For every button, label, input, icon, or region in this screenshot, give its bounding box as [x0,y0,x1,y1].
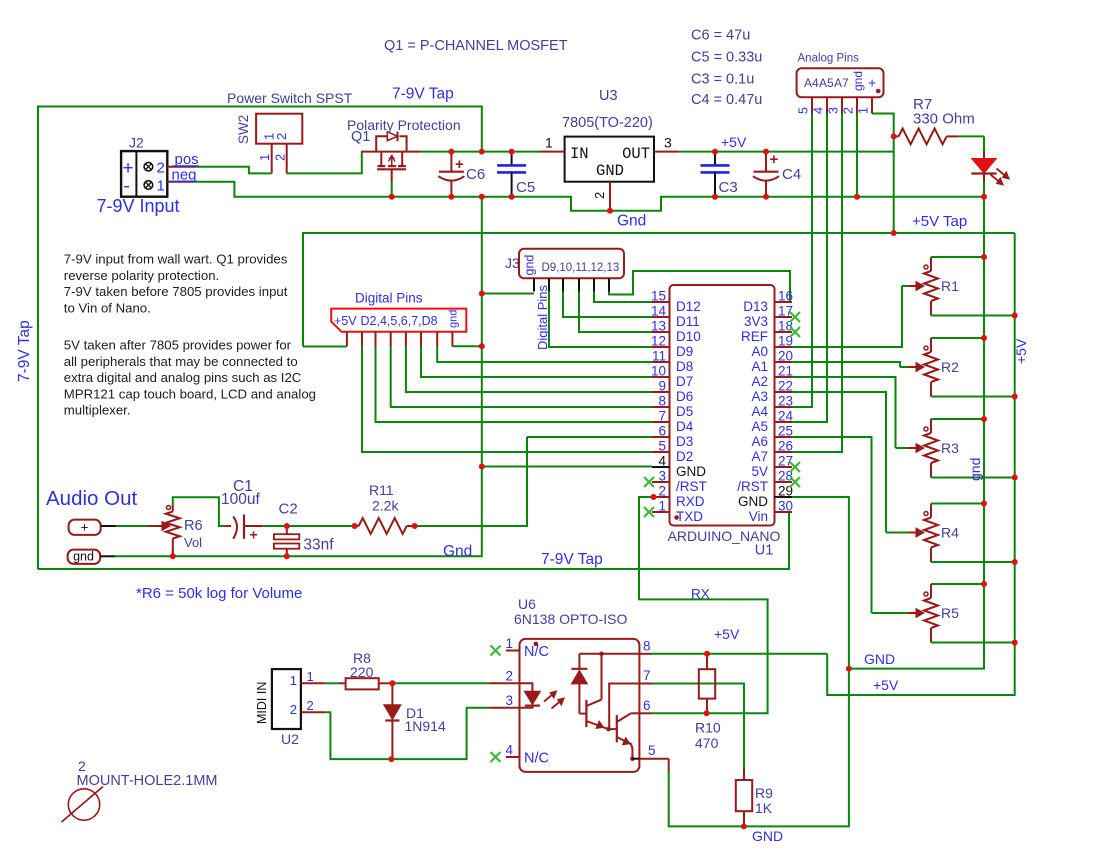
svg-text:Vin: Vin [749,509,768,524]
svg-text:A4: A4 [751,404,768,419]
junction R3 top gnd rail [981,416,987,422]
svg-text:multiplexer.: multiplexer. [64,403,131,418]
svg-text:8: 8 [658,394,666,409]
wire DP to D4 [376,347,653,423]
junction R10 top +5V [704,651,710,657]
svg-text:D10: D10 [676,329,701,344]
svg-text:A5: A5 [751,419,768,434]
junction R9 bottom GND [741,823,747,829]
transistor Q1 P-MOSFET polarity protection [347,117,461,197]
svg-text:RXD: RXD [676,494,705,509]
junction C5 bottom GND [509,194,515,200]
svg-text:13: 13 [651,319,666,334]
svg-text:U2: U2 [281,731,299,747]
svg-text:10: 10 [651,364,666,379]
svg-text:A1: A1 [751,359,768,374]
svg-text:N/C: N/C [524,644,549,660]
svg-text:3: 3 [506,693,514,708]
junction R8-D1 node [389,680,395,686]
potentiometer R2 [900,338,1015,397]
junction J3 gnd [479,291,485,297]
svg-text:4: 4 [658,454,666,469]
resistor R7 [894,96,984,144]
svg-text:C5: C5 [516,179,535,196]
svg-text:3: 3 [664,135,672,151]
junction +5V Tap rail [891,230,897,236]
wire audio gnd rail [115,197,482,557]
svg-text:1: 1 [545,135,553,151]
wire opto pin7 to R9 [652,684,744,770]
svg-text:2: 2 [274,133,289,140]
svg-text:26: 26 [778,439,793,454]
wire nano pin30 Vin to 7-9V Tap [38,512,789,569]
svg-text:2: 2 [842,107,856,114]
svg-text:7-9V Tap: 7-9V Tap [392,86,454,103]
svg-text:17: 17 [778,304,793,319]
svg-text:1: 1 [658,499,666,514]
junction nano GND pin4 [479,464,485,470]
no-connect X nano REF pin18 [790,327,800,337]
svg-text:16: 16 [778,289,793,304]
svg-text:Digital Pins: Digital Pins [535,284,550,350]
svg-text:C6: C6 [466,166,485,183]
svg-text:7: 7 [643,668,651,683]
svg-text:REF: REF [741,329,768,344]
svg-text:6N138 OPTO-ISO: 6N138 OPTO-ISO [514,611,627,627]
svg-text:1: 1 [257,154,272,161]
mount hole [62,758,218,822]
wire J2 pos to SW2 pin1 [196,167,272,174]
svg-text:3V3: 3V3 [744,314,768,329]
junction R11 left [352,523,358,529]
switch SW2 [236,114,302,174]
svg-text:C6 = 47u: C6 = 47u [691,28,750,44]
svg-text:5: 5 [797,107,811,114]
svg-text:1: 1 [290,673,297,688]
svg-text:25: 25 [778,424,793,439]
svg-text:R1: R1 [941,278,959,294]
svg-text:9: 9 [658,379,666,394]
svg-text:7805(TO-220): 7805(TO-220) [562,115,653,131]
svg-text:1K: 1K [755,800,773,816]
connector Digital Pins (red) [331,291,466,347]
svg-text:R6: R6 [184,518,203,534]
wire A2 to R3 wiper [792,377,896,448]
svg-text:+5V Tap: +5V Tap [912,213,967,230]
svg-text:R11: R11 [369,482,394,498]
resistor R10 [695,654,721,751]
svg-text:D2,4,5,6,7,D8: D2,4,5,6,7,D8 [361,314,438,328]
junction 7805 GND pin [607,208,613,214]
svg-text:7: 7 [658,409,666,424]
svg-text:+: + [868,75,876,91]
svg-text:2: 2 [157,160,165,177]
svg-text:Audio Out: Audio Out [46,487,137,510]
svg-text:5V: 5V [751,464,768,479]
svg-text:5: 5 [648,743,656,758]
capacitor C1 [221,478,263,543]
svg-text:8: 8 [643,639,651,654]
junction C6 bottom GND [448,194,454,200]
svg-text:A7: A7 [751,449,768,464]
svg-text:2: 2 [78,758,86,774]
svg-text:3: 3 [827,107,841,114]
svg-text:D6: D6 [676,389,693,404]
svg-text:/RST: /RST [737,479,768,494]
svg-text:14: 14 [651,304,667,319]
capacitor C3 [701,152,738,197]
wire C1 to C2 to R11 [263,525,354,527]
wire gnd right rail [849,197,984,669]
wire MIDI pin1 to R8 [325,682,339,684]
wire +5V Tap rail [303,233,1015,347]
junction R2 bottom +5V rail [1012,394,1018,400]
junction analog header gnd [854,194,860,200]
svg-text:+: + [81,520,89,535]
svg-text:7-9V taken before 7805 provide: 7-9V taken before 7805 provides input [64,284,288,299]
svg-text:D3: D3 [676,434,693,449]
svg-text:100uf: 100uf [221,491,260,508]
svg-text:Power Switch SPST: Power Switch SPST [227,90,353,106]
svg-text:330 Ohm: 330 Ohm [913,111,975,128]
wire D3 row [527,436,652,438]
wire A7 column [792,114,842,453]
junction C6 top 7-9V node [448,149,454,155]
wire MIDI pin2 to D1 cathode [325,708,490,759]
svg-text:D8: D8 [676,359,693,374]
junction R11 right [412,523,418,529]
svg-text:gnd: gnd [73,550,94,564]
junction GND vertical top [479,194,485,200]
junction C3 top +5V [712,149,718,155]
svg-text:470: 470 [695,735,719,751]
wire opto pin2 from R8 [392,682,490,684]
capacitor C4 [753,151,801,197]
wire J3 to D12 [594,291,652,302]
wire A0 to R1 wiper [792,286,902,347]
svg-text:C2: C2 [279,501,298,518]
IC U6 6N138 opto-isolator [490,596,669,772]
svg-text:7-9V Tap: 7-9V Tap [16,320,33,382]
resistor R9 [736,769,773,826]
svg-text:D5: D5 [676,404,693,419]
potentiometer R3 [896,419,1015,478]
capacitor C2 [274,501,334,557]
capacitor C5 [497,152,535,197]
svg-text:+5V: +5V [1013,338,1029,364]
svg-text:+: + [455,156,464,173]
junction R1 bottom +5V rail [1012,313,1018,319]
svg-text:D9: D9 [676,344,693,359]
svg-text:2: 2 [273,154,288,161]
svg-text:15: 15 [651,289,666,304]
svg-text:27: 27 [778,454,793,469]
svg-text:D7: D7 [676,374,693,389]
svg-text:2.2k: 2.2k [372,498,399,514]
potentiometer R5 [872,584,1015,643]
svg-text:GND: GND [676,464,706,479]
svg-text:R3: R3 [941,440,959,456]
junction R2 top gnd rail [981,335,987,341]
note text block [64,252,316,418]
wire DP to D8 [437,347,652,363]
connector J3 digital pins header [505,249,624,350]
svg-text:C5 = 0.33u: C5 = 0.33u [691,50,762,66]
junction RXD pin [651,494,657,500]
resistor R8 [339,650,392,689]
svg-text:R10: R10 [695,720,721,736]
svg-text:Polarity Protection: Polarity Protection [347,117,461,133]
junction R7 left +5V [891,133,897,139]
junction R4 top gnd rail [981,501,987,507]
svg-text:N/C: N/C [524,751,549,767]
wire SW2 pin2 to Q1 [287,152,363,174]
svg-text:21: 21 [778,364,793,379]
svg-text:+: + [770,151,779,168]
svg-text:gnd: gnd [448,310,460,328]
svg-text:reverse polarity protection.: reverse polarity protection. [64,268,219,283]
svg-text:R2: R2 [941,359,959,375]
svg-text:2: 2 [290,702,297,717]
no-connect X nano /RST pin28 [790,477,800,487]
connector J2 7-9V input [97,135,200,217]
svg-text:22: 22 [778,379,793,394]
junction GND rail corner [846,666,852,672]
junction C3 bottom GND [712,194,718,200]
wire J3 to D9 [549,291,652,347]
svg-text:5V taken after 7805 provides p: 5V taken after 7805 provides power for [64,338,292,353]
svg-text:GND: GND [738,494,768,509]
svg-text:3: 3 [658,469,666,484]
svg-text:gnd: gnd [523,255,537,276]
wire digital pins gnd [452,345,481,347]
svg-text:D2: D2 [676,449,693,464]
svg-text:6: 6 [658,424,666,439]
svg-text:GND: GND [864,651,895,667]
junction Q1 gate GND [389,194,395,200]
svg-text:+5V: +5V [714,626,740,642]
svg-text:1: 1 [857,107,871,114]
junction digital pins gnd [479,343,485,349]
svg-text:C4 = 0.47u: C4 = 0.47u [691,92,762,108]
no-connect X nano 3V3 pin17 [790,312,800,322]
wire DP to D2 [362,347,652,453]
svg-text:U3: U3 [599,88,618,104]
potentiometer R1 [902,257,1015,316]
svg-text:+: + [250,527,258,543]
svg-text:1: 1 [307,669,314,684]
label cap values list [691,28,762,109]
svg-text:D12: D12 [676,299,701,314]
junction C5 top [509,149,515,155]
capacitor C6 [438,152,485,197]
svg-text:MPR121 cap touch board, LCD a: MPR121 cap touch board, LCD and analog [64,386,316,401]
junction R10 bottom pin6 [704,710,710,716]
svg-text:all peripherals that may be co: all peripherals that may be connected to [64,354,298,369]
junction R5 top gnd rail [981,581,987,587]
svg-text:Gnd: Gnd [617,213,646,230]
svg-text:to Vin of Nano.: to Vin of Nano. [64,300,151,315]
svg-text:U6: U6 [518,596,536,612]
IC U1 Arduino Nano [651,285,794,559]
junction R6 bottom gnd [170,553,176,559]
svg-text:C3 = 0.1u: C3 = 0.1u [691,72,754,88]
svg-text:2: 2 [307,698,314,713]
wire DP to D6 [406,347,652,393]
diode D1 1N914 [384,683,446,759]
svg-text:OUT: OUT [622,145,650,163]
svg-text:1N914: 1N914 [405,718,446,734]
svg-text:D11: D11 [676,314,700,329]
junction C2 bottom gnd [284,553,290,559]
wire opto pin8 +5V [652,653,827,655]
wire 7-9V top border [38,107,482,570]
svg-text:U1: U1 [755,543,774,559]
svg-text:12: 12 [651,334,666,349]
svg-text:A3: A3 [751,389,768,404]
wire analog + pin to +5V vertical [872,114,894,234]
svg-text:4: 4 [812,107,826,114]
connector audio gnd [68,550,115,564]
svg-text:-: - [124,176,130,197]
wire +5V rail from 7805 OUT [679,151,893,153]
wire analog gnd pin [856,114,858,197]
svg-text:*R6 = 50k log for Volume: *R6 = 50k log for Volume [136,585,302,602]
svg-text:RX: RX [691,587,710,602]
svg-text:Q1 = P-CHANNEL MOSFET: Q1 = P-CHANNEL MOSFET [384,38,568,54]
wire J3 gnd to GND vertical [482,293,534,295]
svg-text:23: 23 [778,394,793,409]
svg-text:20: 20 [778,349,793,364]
junction 7-9V tap at border drop [479,149,485,155]
wire R6 top to C1 [173,497,226,526]
svg-text:+5V: +5V [873,677,899,693]
svg-text:MIDI IN: MIDI IN [255,682,269,724]
svg-text:R4: R4 [941,525,959,541]
svg-text:11: 11 [652,349,666,364]
connector audio + [69,520,116,535]
resistor R11 [355,482,415,534]
junction LED cathode GND [981,194,987,200]
svg-text:SW2: SW2 [236,115,251,144]
svg-text:MOUNT-HOLE2.1MM: MOUNT-HOLE2.1MM [77,773,218,789]
svg-text:C3: C3 [719,179,738,196]
svg-text:1: 1 [157,178,165,195]
wire A3 to R4 wiper [792,392,886,533]
no-connect X nano /RST pin3 [644,477,654,487]
svg-text:A7: A7 [834,76,849,90]
wire +5V right rail to bottom [827,233,1015,695]
svg-text:33nf: 33nf [303,537,334,554]
svg-text:A4: A4 [804,76,819,90]
potentiometer R4 [886,504,1015,563]
svg-text:Vol: Vol [184,535,202,550]
svg-text:/RST: /RST [676,479,707,494]
svg-text:D13: D13 [743,299,768,314]
junction C4 bottom GND [763,194,769,200]
no-connect X nano 5V pin27 [790,462,800,472]
svg-text:30: 30 [778,499,793,514]
wire J3 to D11 [563,291,652,317]
wire J3 to D13 [609,271,790,302]
svg-text:7-9V Input: 7-9V Input [97,196,180,216]
junction D1 cathode node [388,756,394,762]
svg-text:IN: IN [570,145,589,163]
no-connect X opto pin1 [491,646,501,656]
junction C2 top signal [284,523,290,529]
junction R3 bottom +5V rail [1012,475,1018,481]
svg-text:J3: J3 [505,255,520,271]
junction C4 top +5V [763,149,769,155]
svg-text:5: 5 [658,439,666,454]
svg-text:gnd: gnd [851,71,865,91]
junction R1 top gnd rail [981,254,987,260]
wire J2 neg to GND rail [194,182,984,211]
wire A5 column [792,114,827,423]
svg-text:gnd: gnd [967,458,983,481]
wire J3 to D10 [579,291,652,332]
wire A1 to R2 wiper [792,362,900,367]
no-connect X opto pin4 [491,752,501,762]
wire RX from RXD to opto pin6 [639,497,768,713]
wire nano GND pin4 [482,466,652,468]
svg-text:2: 2 [506,669,514,684]
svg-text:2: 2 [592,192,607,199]
svg-text:TXD: TXD [676,509,703,524]
no-connect X nano TXD pin1 [644,507,654,517]
wire DP to D5 [391,347,652,408]
wire DP to D7 [421,347,652,378]
wire digital pins +5V [303,346,347,348]
svg-text:Gnd: Gnd [443,543,472,560]
regulator U3 7805 [540,88,679,211]
wire audio + to R6 wiper [116,525,148,527]
connector Analog Pins header [797,53,884,115]
wire A4 column [792,114,812,408]
svg-text:R9: R9 [755,785,773,801]
wire R11 to D3 vertical [415,437,527,526]
wire 7-9V rail after Q1 [421,151,540,153]
svg-text:4: 4 [506,743,514,758]
svg-text:2: 2 [658,484,666,499]
svg-text:GND: GND [596,162,624,180]
junction R5 bottom +5V rail [1012,640,1018,646]
wire R6 bottom to gnd [172,549,174,556]
svg-text:24: 24 [778,409,794,424]
svg-text:D9,10,11,12,13: D9,10,11,12,13 [542,262,620,274]
svg-text:A0: A0 [751,344,768,359]
LED diode [971,136,1009,196]
svg-text:+5V: +5V [721,134,747,150]
wire A6 to R5 wiper [792,437,872,613]
svg-text:GND: GND [752,828,783,844]
svg-text:Digital Pins: Digital Pins [355,291,423,306]
svg-text:A6: A6 [751,434,768,449]
svg-text:A2: A2 [751,374,768,389]
svg-text:1: 1 [506,636,514,651]
wire nano pin29 GND [669,497,849,826]
svg-text:7-9V input from wall wart. Q1: 7-9V input from wall wart. Q1 provides [64,252,288,267]
svg-text:7-9V Tap: 7-9V Tap [541,551,603,568]
svg-text:+5V: +5V [334,314,357,328]
svg-text:extra digital and analog pins: extra digital and analog pins such as I2… [64,370,302,385]
svg-text:D4: D4 [676,419,694,434]
potentiometer R6 volume [147,505,202,556]
svg-text:Analog Pins: Analog Pins [798,53,860,65]
svg-text:6: 6 [643,698,651,713]
connector U2 MIDI IN [255,669,325,747]
junction R4 bottom +5V rail [1012,559,1018,565]
